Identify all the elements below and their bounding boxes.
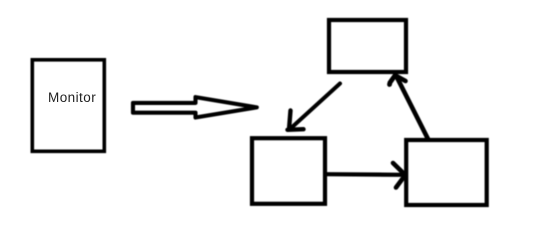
block arrow bbox=[133, 97, 257, 117]
wire: arrow shaft bottom-right box to top box bbox=[397, 77, 429, 140]
wire: arrow shaft bottom-left box to bottom-right box bbox=[326, 172, 404, 177]
bottom-right box bbox=[406, 140, 487, 205]
top box bbox=[329, 20, 406, 72]
bottom-left box bbox=[252, 138, 325, 204]
arrowhead (down-left): horizontal barb bbox=[288, 127, 304, 132]
arrowhead (right): lower barb bbox=[396, 175, 405, 188]
arrowhead (up): left barb bbox=[390, 76, 396, 85]
label: Monitor bbox=[48, 90, 96, 105]
monitor box bbox=[32, 60, 104, 152]
arrowhead (up): right barb bbox=[396, 76, 406, 82]
arrowhead (right): upper barb bbox=[393, 163, 405, 175]
wire: arrow shaft top box to bottom-left box bbox=[290, 84, 340, 130]
arrowhead (down-left): vertical barb bbox=[289, 111, 291, 130]
